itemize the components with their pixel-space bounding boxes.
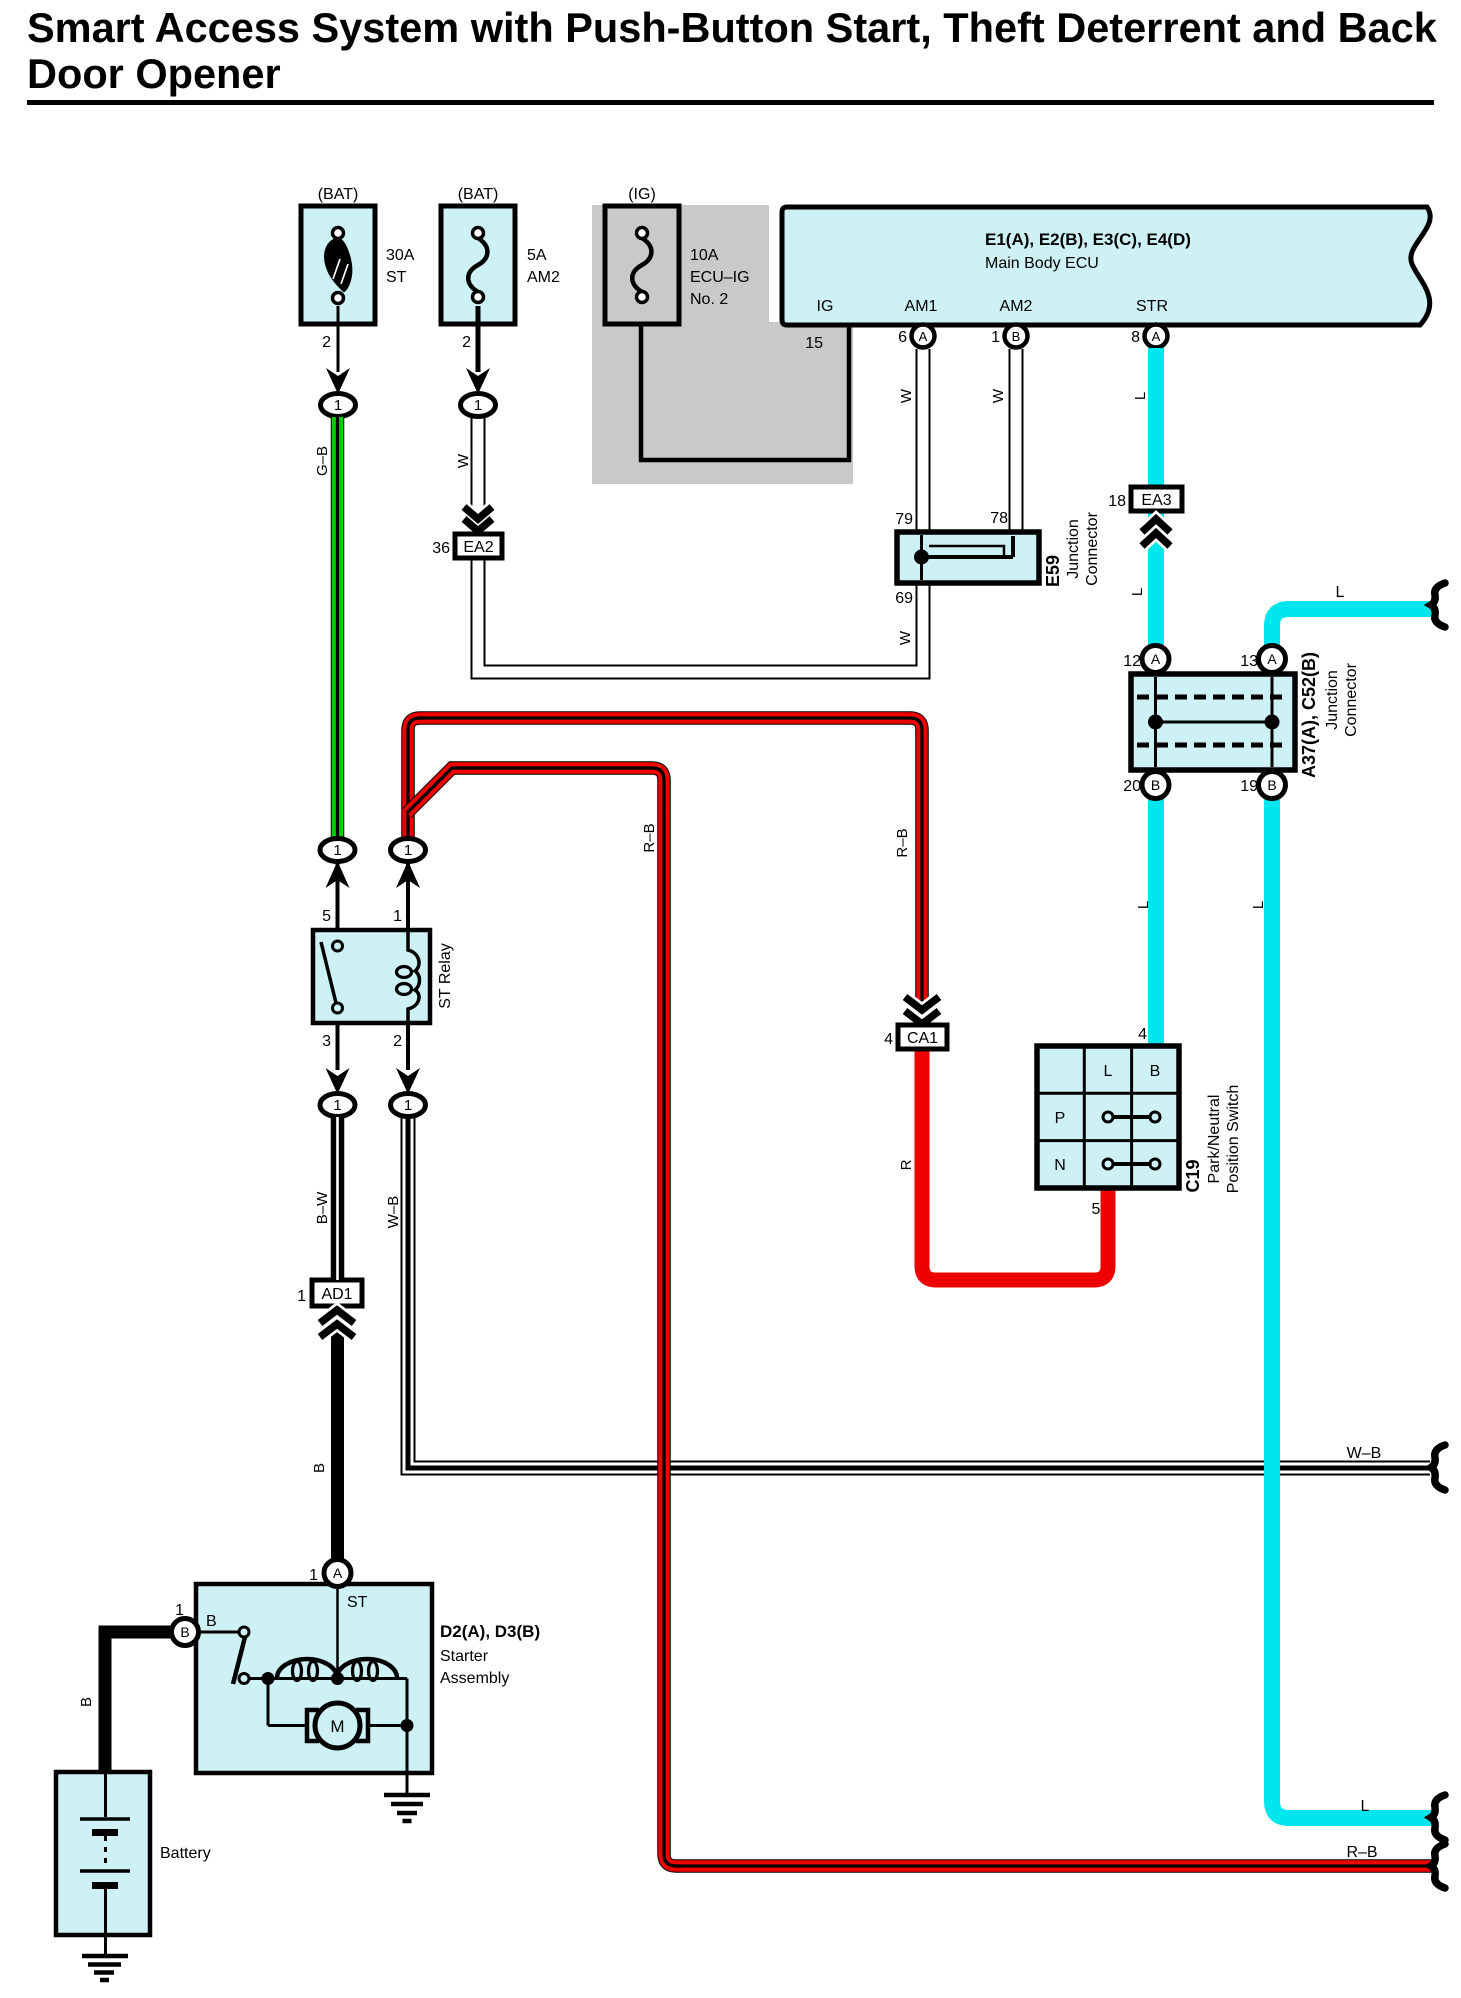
svg-text:W: W [455, 453, 472, 468]
svg-text:R: R [898, 1159, 915, 1170]
svg-text:G–B: G–B [314, 446, 331, 476]
svg-text:ST Relay: ST Relay [437, 943, 454, 1009]
svg-text:EA3: EA3 [1141, 492, 1171, 509]
svg-text:Junction: Junction [1065, 519, 1082, 579]
svg-text:2: 2 [393, 1033, 402, 1050]
svg-text:78: 78 [990, 510, 1008, 527]
svg-text:M: M [330, 1717, 344, 1736]
svg-text:EA2: EA2 [463, 539, 493, 556]
svg-text:1: 1 [333, 842, 341, 859]
svg-text:1: 1 [175, 1602, 184, 1619]
svg-text:8: 8 [1131, 329, 1140, 346]
svg-text:79: 79 [895, 511, 913, 528]
svg-text:A: A [1152, 329, 1161, 344]
svg-text:Battery: Battery [160, 1845, 211, 1862]
svg-text:W: W [898, 388, 915, 403]
svg-text:5: 5 [1092, 1201, 1101, 1218]
svg-text:(BAT): (BAT) [318, 186, 359, 203]
svg-text:L: L [1129, 588, 1146, 596]
svg-text:L: L [1135, 901, 1152, 909]
svg-text:AM1: AM1 [905, 298, 938, 315]
svg-text:10A: 10A [690, 247, 719, 264]
svg-text:A: A [919, 329, 928, 344]
svg-text:W–B: W–B [1347, 1445, 1382, 1462]
svg-text:B: B [1150, 1063, 1161, 1080]
svg-text:Position Switch: Position Switch [1225, 1085, 1242, 1194]
svg-text:Park/Neutral: Park/Neutral [1206, 1095, 1223, 1184]
svg-text:2: 2 [322, 334, 331, 351]
svg-text:R–B: R–B [641, 823, 658, 852]
svg-text:B–W: B–W [314, 1191, 331, 1224]
svg-text:No. 2: No. 2 [690, 291, 728, 308]
svg-text:Connector: Connector [1343, 662, 1360, 736]
svg-text:A: A [1267, 651, 1277, 667]
svg-text:ECU–IG: ECU–IG [690, 269, 750, 286]
svg-text:1: 1 [393, 908, 402, 925]
svg-text:IG: IG [817, 298, 834, 315]
svg-text:B: B [206, 1613, 217, 1630]
svg-text:B: B [1267, 777, 1276, 793]
svg-text:L: L [1250, 901, 1267, 909]
svg-text:Connector: Connector [1084, 511, 1101, 585]
svg-text:1: 1 [404, 842, 412, 859]
svg-text:P: P [1055, 1110, 1066, 1127]
svg-text:L: L [1132, 392, 1149, 400]
svg-text:1: 1 [474, 397, 482, 414]
svg-text:AM2: AM2 [1000, 298, 1033, 315]
svg-text:A37(A), C52(B): A37(A), C52(B) [1299, 652, 1319, 778]
svg-text:L: L [1336, 584, 1345, 601]
svg-text:1: 1 [309, 1567, 318, 1584]
svg-text:5: 5 [322, 908, 331, 925]
svg-text:Main Body ECU: Main Body ECU [985, 255, 1099, 272]
svg-text:4: 4 [884, 1031, 893, 1048]
svg-text:3: 3 [322, 1033, 331, 1050]
svg-text:E1(A), E2(B), E3(C), E4(D): E1(A), E2(B), E3(C), E4(D) [985, 230, 1191, 249]
svg-text:(IG): (IG) [628, 186, 656, 203]
svg-text:2: 2 [462, 334, 471, 351]
svg-text:W–B: W–B [385, 1196, 402, 1229]
svg-text:B: B [78, 1697, 95, 1707]
svg-text:Junction: Junction [1324, 670, 1341, 730]
svg-text:15: 15 [805, 335, 823, 352]
svg-text:12: 12 [1123, 653, 1141, 670]
svg-text:Starter: Starter [440, 1648, 489, 1665]
svg-text:1: 1 [297, 1288, 306, 1305]
svg-text:B: B [1151, 777, 1160, 793]
svg-text:A: A [333, 1565, 343, 1581]
svg-text:5A: 5A [527, 247, 547, 264]
svg-text:W: W [990, 388, 1007, 403]
svg-text:L: L [1361, 1798, 1370, 1815]
svg-text:13: 13 [1240, 653, 1258, 670]
svg-text:ST: ST [347, 1594, 368, 1611]
svg-text:A: A [1151, 651, 1161, 667]
svg-text:4: 4 [1138, 1026, 1147, 1043]
svg-text:20: 20 [1123, 778, 1141, 795]
svg-text:E59: E59 [1043, 555, 1063, 587]
svg-text:W: W [897, 630, 914, 645]
svg-text:N: N [1054, 1157, 1066, 1174]
svg-text:B: B [311, 1463, 328, 1473]
svg-text:36: 36 [432, 540, 450, 557]
svg-text:B: B [1012, 329, 1021, 344]
svg-text:6: 6 [898, 329, 907, 346]
svg-text:Door Opener: Door Opener [27, 50, 281, 97]
svg-text:1: 1 [334, 397, 342, 414]
svg-text:STR: STR [1136, 298, 1168, 315]
svg-text:AD1: AD1 [321, 1286, 352, 1303]
svg-text:B: B [180, 1624, 189, 1640]
svg-text:L: L [1104, 1063, 1113, 1080]
svg-text:30A: 30A [386, 247, 415, 264]
svg-text:1: 1 [991, 329, 1000, 346]
svg-text:1: 1 [333, 1097, 341, 1114]
svg-text:(BAT): (BAT) [458, 186, 499, 203]
svg-text:1: 1 [404, 1097, 412, 1114]
svg-text:D2(A), D3(B): D2(A), D3(B) [440, 1622, 540, 1641]
svg-text:19: 19 [1240, 778, 1258, 795]
svg-text:Assembly: Assembly [440, 1670, 509, 1687]
svg-text:AM2: AM2 [527, 269, 560, 286]
svg-text:18: 18 [1108, 493, 1126, 510]
svg-text:ST: ST [386, 269, 407, 286]
svg-text:R–B: R–B [894, 828, 911, 857]
svg-text:69: 69 [895, 590, 913, 607]
svg-text:C19: C19 [1183, 1159, 1203, 1192]
svg-text:CA1: CA1 [907, 1030, 938, 1047]
svg-text:R–B: R–B [1346, 1844, 1377, 1861]
svg-text:Smart Access System with Push-: Smart Access System with Push-Button Sta… [27, 4, 1438, 51]
